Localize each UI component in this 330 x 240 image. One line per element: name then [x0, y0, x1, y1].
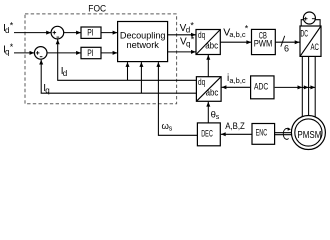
svg-text:PMSM: PMSM	[297, 130, 321, 141]
DEC block U7	[197, 123, 220, 146]
svg-text:s: s	[169, 125, 173, 132]
svg-text:dq: dq	[198, 30, 205, 40]
summing junction S2 (Iq)	[34, 47, 47, 60]
wire PI2 to decoupling network	[101, 52, 117, 54]
node iabc label	[227, 73, 246, 85]
svg-text:network: network	[127, 39, 160, 50]
ENC encoder block U8	[252, 124, 275, 145]
wire theta_s abc/dq to dq/abc	[207, 55, 209, 77]
svg-text:*: *	[10, 20, 14, 30]
wire Id feedback to S1	[58, 39, 197, 80]
wire S1 to PI1	[64, 32, 81, 34]
svg-text:*: *	[191, 34, 195, 44]
svg-text:*: *	[190, 21, 194, 31]
wire Id branch to decoupling	[127, 62, 129, 80]
svg-text:PI: PI	[87, 48, 93, 58]
node Vq* label	[180, 34, 195, 48]
dq to abc transform block U2	[196, 30, 220, 55]
decoupling network block U1	[118, 22, 168, 62]
svg-text:s: s	[216, 114, 220, 121]
wire phase b	[308, 56, 310, 115]
wire decoupling to dq1 (Vq*)	[168, 51, 196, 53]
wire DC source leads	[301, 20, 320, 27]
svg-text:*: *	[10, 42, 14, 52]
wire phase a	[301, 56, 303, 116]
svg-text:PI: PI	[87, 28, 93, 38]
wire Iq branch to decoupling	[140, 62, 142, 93]
abc to dq transform block U6	[196, 77, 221, 102]
svg-text:DC: DC	[301, 29, 309, 39]
wire Iq* input	[14, 52, 34, 54]
wire motor shaft	[275, 133, 292, 135]
wire S2 to PI2	[47, 52, 81, 54]
PI controller PI2	[81, 47, 101, 58]
PI controller PI1	[81, 27, 101, 38]
node Id* label	[3, 20, 14, 35]
svg-text:DEC: DEC	[201, 128, 213, 138]
node theta_s label	[211, 110, 220, 122]
DC source V1	[303, 12, 315, 24]
wire Id* input	[14, 32, 51, 34]
wire phase c	[314, 56, 316, 116]
svg-text:q: q	[45, 86, 49, 95]
wire CB PWM to DC/AC inverter	[275, 41, 299, 43]
svg-text:FOC: FOC	[88, 3, 106, 13]
wire Iq feedback to S2	[41, 60, 196, 93]
svg-text:PWM: PWM	[254, 38, 273, 48]
svg-text:a,b,c: a,b,c	[229, 30, 246, 39]
CB PWM block U3	[252, 29, 276, 54]
svg-text:*: *	[245, 24, 249, 34]
node Vd* label	[180, 21, 195, 35]
svg-text:abc: abc	[205, 40, 218, 50]
wire decoupling to dq1 (Vd*)	[168, 34, 196, 36]
ADC block U5	[251, 76, 274, 99]
svg-text:dq: dq	[198, 77, 205, 87]
node Iq label	[43, 83, 49, 95]
wire ENC to DEC (A,B,Z)	[221, 133, 252, 135]
svg-text:ENC: ENC	[256, 127, 268, 137]
svg-text:A,B,Z: A,B,Z	[225, 121, 245, 131]
wire PI1 to decoupling network	[101, 32, 117, 34]
node Iq* label	[3, 42, 14, 57]
svg-text:a,b,c: a,b,c	[229, 76, 246, 85]
node Vabc* label	[223, 24, 249, 40]
PMSM motor M1	[291, 116, 325, 150]
wire omega_s DEC to decoupling	[158, 62, 197, 135]
wire current sense taps to ADC	[275, 86, 316, 88]
svg-text:abc: abc	[206, 88, 219, 98]
wire theta_s DEC to abc/dq	[207, 102, 209, 123]
DC/AC inverter block U4	[300, 26, 321, 56]
svg-text:6: 6	[284, 43, 289, 53]
wire ADC to abc/dq (iabc)	[222, 86, 251, 88]
svg-text:ADC: ADC	[254, 82, 268, 92]
node Id label	[61, 66, 67, 78]
svg-text:q: q	[186, 40, 190, 49]
node omega_s label	[162, 121, 173, 133]
FOC dashed boundary box	[25, 14, 177, 104]
bus width slash	[281, 36, 285, 47]
svg-text:AC: AC	[311, 42, 320, 52]
svg-text:d: d	[63, 69, 67, 78]
wire dq1 to CB PWM (Vabc*)	[220, 41, 251, 43]
rotation arrow on shaft	[283, 127, 291, 139]
summing junction S1 (Id)	[51, 26, 64, 39]
